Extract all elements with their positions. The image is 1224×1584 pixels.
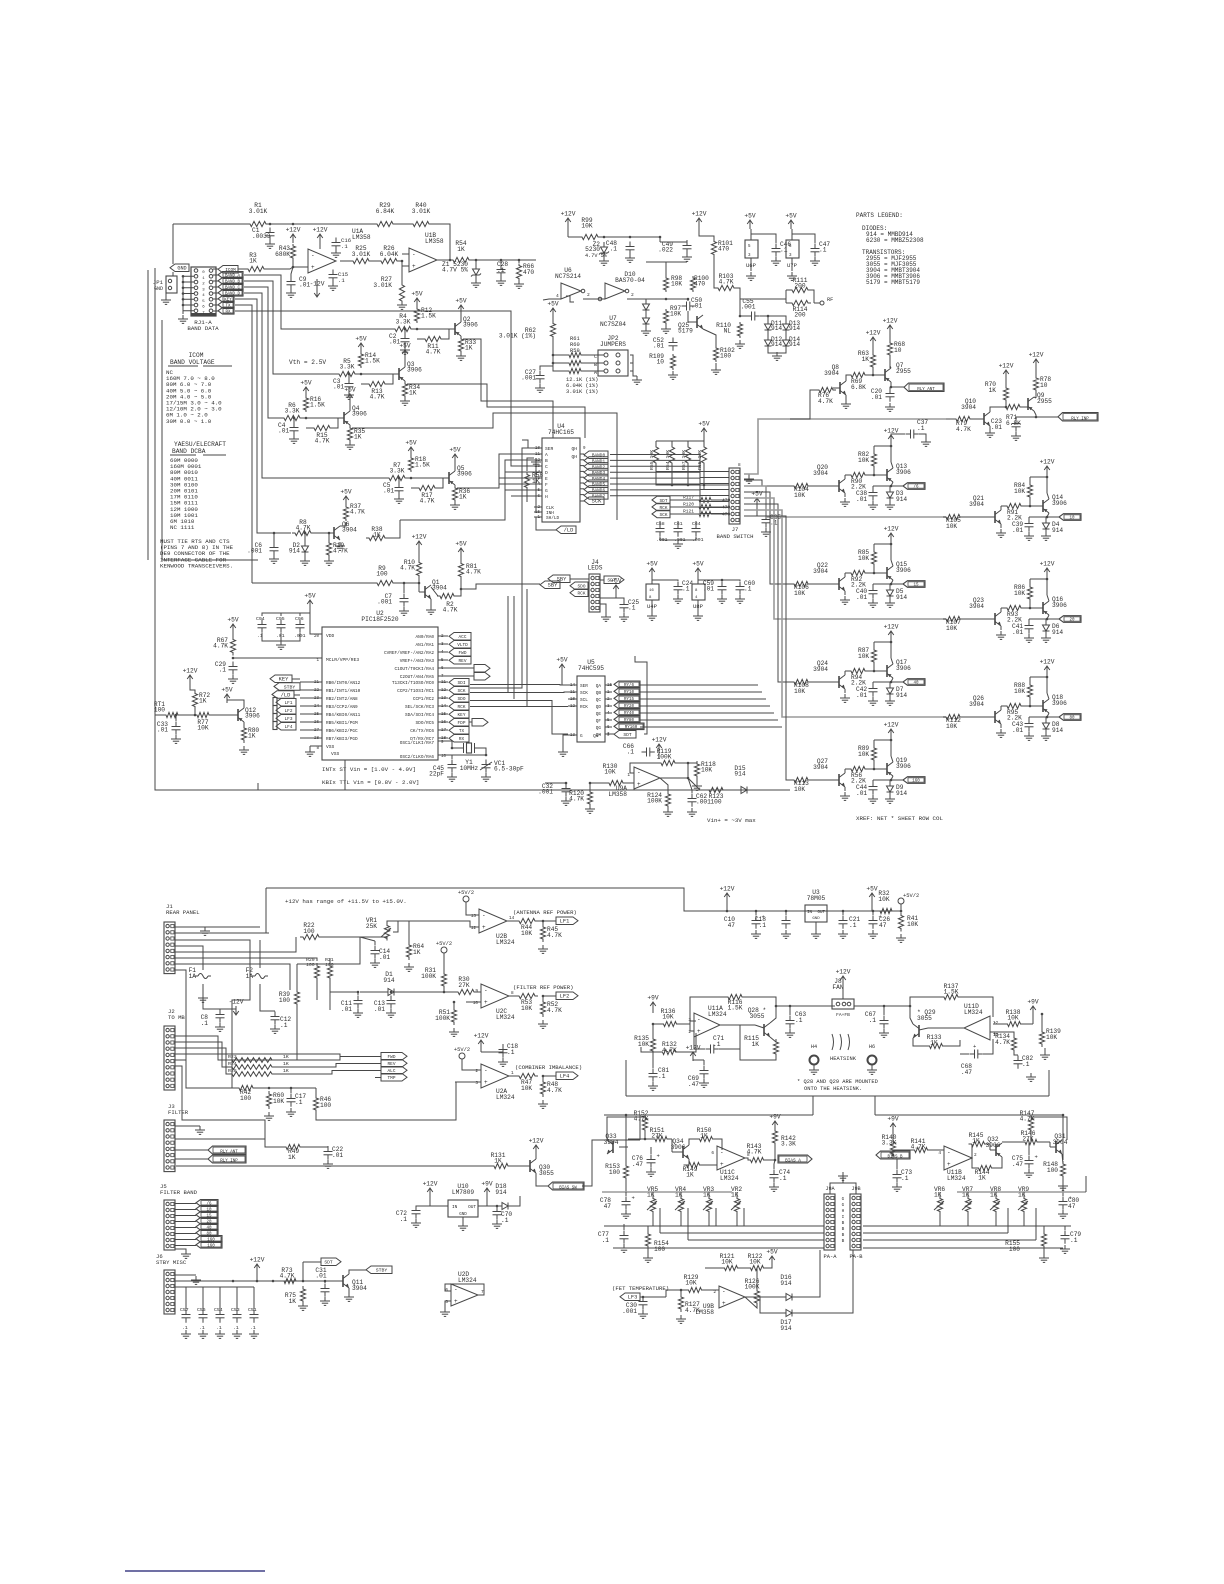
svg-text:LM324: LM324 — [708, 1011, 727, 1018]
wire — [175, 1042, 232, 1067]
svg-text:C57: C57 — [180, 1307, 189, 1313]
svg-text:100: 100 — [325, 962, 334, 968]
svg-text:+: + — [1035, 1154, 1038, 1161]
svg-text:3906: 3906 — [986, 1142, 1001, 1149]
wire band bus to J7 — [610, 455, 729, 514]
capacitor C52 — [653, 337, 678, 351]
svg-text:E: E — [545, 476, 548, 482]
ground — [298, 1302, 308, 1310]
wire — [173, 223, 247, 225]
svg-text:5: 5 — [202, 300, 205, 304]
resistor R110 — [716, 315, 742, 338]
capacitor C46 — [751, 234, 791, 257]
+12V power — [474, 1033, 489, 1053]
resistor R147 — [1020, 1110, 1067, 1142]
resistor R140 — [882, 1132, 897, 1157]
svg-text:LM324: LM324 — [496, 1014, 515, 1021]
+5V power — [340, 489, 351, 506]
svg-text:LM324: LM324 — [496, 939, 515, 946]
wire — [875, 1096, 1064, 1160]
svg-text:3904: 3904 — [342, 527, 357, 534]
resistor R28 — [228, 1068, 289, 1076]
svg-text:+5V: +5V — [744, 213, 755, 220]
resistor R25 — [350, 245, 372, 264]
svg-text:.1: .1 — [602, 1237, 610, 1244]
svg-text:INTx ST Vin = [1.0V - 4.0V]: INTx ST Vin = [1.0V - 4.0V] — [322, 766, 416, 773]
tag STBY — [274, 683, 300, 691]
resistor R55 R54 R57 R65 — [649, 441, 707, 470]
transistor Q24 — [813, 660, 845, 693]
svg-text:+12V: +12V — [836, 969, 851, 976]
+9V power — [887, 1116, 898, 1133]
capacitor C30 — [622, 1296, 647, 1315]
ground — [885, 599, 895, 607]
capacitor C43 — [1012, 717, 1034, 734]
svg-text:4.7K: 4.7K — [956, 426, 971, 433]
svg-text:3906: 3906 — [245, 713, 260, 720]
svg-text:10K: 10K — [946, 723, 957, 730]
svg-text:/LD: /LD — [281, 692, 291, 698]
svg-text:914: 914 — [383, 977, 394, 984]
text r-values — [566, 377, 598, 395]
wire — [940, 1211, 1024, 1226]
svg-text:3.01K: 3.01K — [373, 282, 392, 289]
+5V power — [405, 440, 416, 457]
wire — [1029, 516, 1059, 519]
wire bus — [235, 299, 291, 533]
capacitor C81 — [649, 1054, 670, 1082]
capacitor C6 — [247, 532, 279, 564]
svg-text:KEY: KEY — [279, 677, 289, 683]
svg-text:+12V: +12V — [313, 227, 328, 234]
ground — [879, 1029, 889, 1037]
transistor Q30 — [530, 1152, 554, 1177]
svg-text:.01: .01 — [341, 1006, 352, 1013]
ground — [1041, 732, 1051, 740]
ground — [538, 1100, 548, 1108]
resistor R70 — [985, 381, 1009, 407]
svg-text:+12V: +12V — [884, 526, 899, 533]
svg-text:1: 1 — [627, 773, 630, 778]
svg-text:R55 10K: R55 10K — [649, 450, 655, 470]
ground — [659, 537, 661, 540]
svg-text:+12V: +12V — [412, 534, 427, 541]
+5V power — [785, 213, 796, 230]
wire — [1016, 416, 1058, 419]
svg-text:1K: 1K — [199, 698, 207, 705]
svg-text:10K: 10K — [858, 751, 869, 758]
svg-text:H6: H6 — [869, 1044, 875, 1050]
svg-text:100: 100 — [720, 353, 731, 360]
svg-text:914: 914 — [789, 325, 800, 332]
svg-text:SDT: SDT — [324, 1260, 333, 1266]
tag SDT — [303, 1258, 341, 1281]
svg-text:914: 914 — [289, 548, 300, 555]
capacitor C25 — [616, 598, 639, 613]
capacitor C64 — [692, 521, 704, 543]
wire — [582, 1140, 640, 1186]
svg-text:3904: 3904 — [813, 568, 828, 575]
connector RJ1-A — [187, 267, 219, 332]
svg-text:+5V: +5V — [692, 561, 703, 568]
resistor R127 — [678, 1289, 700, 1314]
svg-text:RCK: RCK — [580, 705, 588, 710]
svg-text:.1: .1 — [1022, 1061, 1030, 1068]
svg-text:+12V has range of +11.5V to +1: +12V has range of +11.5V to +15.0V. — [285, 898, 407, 905]
ground — [868, 501, 878, 509]
capacitor C37 — [891, 419, 928, 444]
resistor R133 — [913, 1034, 960, 1049]
ground — [1024, 1169, 1034, 1177]
svg-text:+12V: +12V — [286, 227, 301, 234]
text note-kenwood — [160, 538, 234, 569]
+5V power — [344, 387, 355, 407]
svg-text:SCK: SCK — [580, 691, 588, 696]
+12V power — [652, 737, 667, 760]
svg-text:.1: .1 — [795, 1017, 803, 1024]
wire — [258, 760, 752, 790]
svg-text:-: - — [454, 1286, 458, 1293]
ground — [1024, 634, 1034, 642]
wire — [635, 656, 647, 734]
+5V power — [411, 291, 422, 308]
svg-text:+5V: +5V — [556, 657, 567, 664]
wire — [660, 777, 689, 780]
ground — [531, 458, 541, 512]
svg-text:RY15: RY15 — [624, 698, 635, 702]
ground — [751, 930, 761, 938]
+12V power — [692, 211, 707, 228]
svg-text:1K: 1K — [288, 1154, 296, 1161]
resistor R85 — [858, 544, 877, 567]
resistor R41 — [898, 913, 918, 932]
svg-text:914: 914 — [780, 1325, 791, 1332]
svg-text:QH: QH — [571, 454, 577, 460]
connector J1 — [164, 903, 200, 974]
ground — [399, 607, 409, 615]
tag 80 — [1059, 714, 1081, 721]
svg-text:B: B — [545, 458, 548, 464]
capacitor C50 — [682, 297, 703, 311]
svg-text:10: 10 — [1040, 382, 1048, 389]
svg-text:LF1: LF1 — [560, 919, 570, 925]
ground — [840, 694, 850, 702]
crystal Y1 — [438, 741, 486, 772]
svg-text:1.5K: 1.5K — [310, 402, 325, 409]
svg-text:100K: 100K — [647, 798, 662, 805]
svg-text:SDI: SDI — [458, 681, 466, 686]
svg-text:.1: .1 — [341, 243, 348, 250]
resistor R60 — [567, 342, 583, 366]
wire — [470, 448, 528, 688]
capacitor C44 — [856, 780, 878, 797]
svg-text:1K: 1K — [283, 1061, 289, 1067]
resistor R136 — [653, 1008, 696, 1027]
fuse F1 — [189, 967, 211, 980]
wire — [194, 707, 197, 716]
svg-text:LM324: LM324 — [964, 1009, 983, 1016]
+9V power — [769, 1114, 780, 1132]
svg-text:B: B — [842, 1239, 845, 1244]
tag — [652, 510, 697, 518]
+5V power — [698, 421, 709, 442]
resistor R102 — [703, 329, 735, 362]
svg-text:FDP: FDP — [458, 721, 466, 726]
resistor R62 — [499, 317, 556, 340]
wire — [400, 460, 534, 520]
wire — [660, 539, 696, 541]
wire — [292, 258, 294, 267]
ground — [286, 1108, 296, 1116]
svg-text:+: + — [720, 1161, 724, 1168]
resistor R81 — [458, 557, 481, 580]
svg-text:ONTO THE HEATSINK.: ONTO THE HEATSINK. — [804, 1086, 862, 1092]
svg-text:40: 40 — [913, 682, 919, 686]
resistor R21 — [325, 957, 334, 981]
wire — [202, 968, 204, 970]
ground — [492, 1220, 502, 1228]
svg-text:-: - — [697, 1016, 701, 1023]
power +5V/2 — [458, 890, 474, 907]
resistor R144 — [972, 1157, 1002, 1182]
capacitor C60 — [736, 580, 756, 595]
ground — [996, 529, 1006, 537]
ground — [885, 403, 895, 411]
svg-text:LF3: LF3 — [285, 717, 293, 722]
ground — [840, 596, 850, 604]
ground — [648, 1082, 658, 1090]
wire — [470, 701, 568, 735]
wire — [1030, 676, 1048, 706]
ic U2 right pins — [384, 635, 448, 760]
svg-text:OSC2/CLKO/RA6: OSC2/CLKO/RA6 — [400, 755, 435, 760]
svg-text:RB4/KBI0/AN11: RB4/KBI0/AN11 — [326, 713, 361, 718]
text 12v-range — [285, 898, 407, 905]
resistor R124 — [647, 778, 670, 809]
tag — [652, 496, 697, 504]
svg-text:4.7V 5%: 4.7V 5% — [442, 267, 468, 274]
ground — [682, 253, 692, 261]
svg-text:4.7K: 4.7K — [747, 1149, 762, 1156]
wire — [162, 320, 258, 560]
resistor R68 — [887, 340, 905, 368]
svg-text:10K: 10K — [273, 1098, 284, 1105]
resistor R154 — [645, 1226, 669, 1253]
svg-text:-: - — [311, 252, 315, 259]
svg-text:10K: 10K — [701, 767, 712, 774]
svg-text:0: 0 — [202, 271, 205, 275]
+9V power — [647, 995, 658, 1014]
capacitor C67 — [865, 1005, 889, 1029]
tag RLY_ANT — [175, 1146, 246, 1154]
resistor R98 — [646, 262, 687, 292]
+9V power — [1027, 999, 1038, 1025]
svg-text:.1: .1 — [849, 922, 857, 929]
svg-text:R54 10K: R54 10K — [665, 450, 671, 470]
svg-text:+12V: +12V — [1029, 352, 1044, 359]
resistor R139 — [1039, 1013, 1061, 1047]
resistor R153 — [605, 1152, 628, 1181]
connector J4 — [588, 559, 603, 612]
variable capacitor VC1 — [480, 754, 524, 773]
wire — [874, 445, 892, 475]
svg-text:470: 470 — [694, 281, 705, 288]
resistor R155 — [1005, 1226, 1046, 1253]
svg-text:10K: 10K — [521, 1005, 532, 1012]
mount H4 — [809, 1044, 819, 1074]
wire — [797, 1250, 853, 1313]
svg-text:2: 2 — [631, 292, 634, 298]
svg-text:5: 5 — [789, 245, 792, 249]
wire — [752, 789, 790, 791]
svg-text:+12V: +12V — [1040, 659, 1055, 666]
svg-text:.1: .1 — [901, 1175, 909, 1182]
op-amp U11C — [711, 1146, 750, 1182]
svg-text:.01: .01 — [315, 1273, 326, 1280]
wire — [470, 706, 568, 708]
resistor R122 — [748, 1253, 773, 1271]
svg-text:D: D — [545, 470, 548, 476]
svg-text:PA-B: PA-B — [850, 1254, 864, 1260]
svg-text:3906: 3906 — [407, 367, 422, 374]
ground — [498, 1058, 508, 1066]
svg-text:QC: QC — [596, 698, 602, 703]
svg-text:.01: .01 — [856, 594, 867, 601]
+5V power — [744, 491, 763, 517]
resistor RT1 — [154, 701, 181, 718]
svg-text:10K: 10K — [1014, 688, 1025, 695]
tag /LD — [272, 691, 300, 699]
svg-text:QH*: QH* — [593, 734, 601, 739]
svg-text:3904: 3904 — [969, 603, 984, 610]
svg-text:+5V: +5V — [304, 593, 315, 600]
svg-text:3055: 3055 — [750, 1013, 765, 1020]
resistor R109 — [649, 353, 675, 370]
svg-text:2: 2 — [202, 283, 205, 287]
node pic port tags — [449, 679, 469, 743]
wire — [656, 464, 729, 486]
op-amp U11B — [938, 1146, 977, 1182]
svg-text:IN: IN — [452, 1205, 458, 1210]
ground — [892, 1183, 902, 1191]
ground — [228, 675, 238, 683]
svg-text:+12V: +12V — [561, 211, 576, 218]
svg-text:4.7K: 4.7K — [995, 1039, 1010, 1046]
resistor R49 — [175, 1139, 328, 1161]
svg-text:3904: 3904 — [813, 666, 828, 673]
wire — [175, 1280, 343, 1283]
wire — [293, 261, 308, 267]
svg-text:3.01K: 3.01K — [249, 208, 268, 215]
capacitor C8 — [201, 984, 225, 1027]
capacitor C21 — [827, 910, 860, 929]
wire — [660, 1208, 744, 1240]
svg-text:C54: C54 — [214, 1307, 223, 1313]
wire — [235, 311, 534, 466]
ground — [331, 249, 341, 257]
wire — [873, 583, 903, 586]
diode D14 — [783, 335, 801, 351]
svg-text:+5V: +5V — [610, 578, 621, 585]
resistor R3 — [238, 252, 308, 272]
resistor R75 — [285, 1286, 306, 1305]
svg-text:3906: 3906 — [457, 471, 472, 478]
svg-text:3904: 3904 — [961, 404, 976, 411]
+12V power — [1040, 459, 1055, 478]
resistor R120 — [683, 502, 731, 511]
capacitor C47 — [792, 234, 830, 257]
svg-text:-: - — [722, 1288, 726, 1295]
wire — [1030, 578, 1048, 608]
svg-text:2.2K: 2.2K — [851, 582, 866, 589]
svg-text:10: 10 — [1069, 517, 1075, 521]
capacitor C62 — [688, 778, 712, 807]
wire — [526, 589, 528, 706]
resistor R152 — [607, 1110, 649, 1140]
resistor R80 — [241, 722, 259, 743]
resistor R20 — [306, 957, 320, 981]
wire — [874, 543, 892, 573]
svg-text:3906: 3906 — [896, 469, 911, 476]
+5V power — [455, 298, 466, 318]
svg-text:OUT: OUT — [817, 911, 825, 915]
capacitor C10 — [724, 910, 765, 929]
ground — [286, 289, 296, 297]
ground — [663, 808, 673, 816]
connector J9B — [850, 1186, 861, 1250]
diode Z2 — [585, 241, 609, 259]
wire — [626, 1192, 737, 1199]
svg-text:3.01K (1%): 3.01K (1%) — [566, 389, 598, 395]
wire — [513, 596, 515, 699]
svg-text:.01: .01 — [1012, 727, 1023, 734]
svg-text:GND: GND — [177, 266, 186, 272]
svg-text:LF2: LF2 — [285, 709, 293, 714]
wire — [414, 328, 443, 331]
text xref — [856, 815, 943, 822]
svg-text:R59: R59 — [570, 348, 580, 354]
svg-text:6: 6 — [711, 1151, 714, 1156]
ground — [535, 384, 545, 392]
ground — [996, 631, 1006, 639]
ground — [561, 797, 571, 805]
resistor R143 — [745, 1143, 776, 1163]
wire — [408, 477, 437, 480]
svg-text:FAN: FAN — [832, 984, 843, 991]
+12V power — [1040, 561, 1055, 580]
svg-text:2.2K: 2.2K — [851, 680, 866, 687]
ground — [538, 945, 548, 953]
transistor Q22 — [813, 562, 845, 595]
-12V power — [310, 279, 325, 297]
ground — [411, 1219, 421, 1227]
svg-text:1.5K: 1.5K — [728, 1005, 743, 1012]
capacitor C68 — [960, 1039, 993, 1076]
capacitor C70 — [493, 1205, 513, 1224]
svg-text:YAESU/ELECRAFT: YAESU/ELECRAFT — [174, 441, 226, 448]
ground — [496, 277, 506, 285]
+5V power — [556, 657, 568, 686]
ground — [771, 257, 781, 265]
svg-text:A: A — [545, 452, 548, 458]
svg-text:+: + — [657, 1153, 660, 1160]
svg-text:.01: .01 — [379, 954, 390, 961]
svg-text:10K: 10K — [638, 1041, 649, 1048]
svg-text:3904: 3904 — [813, 764, 828, 771]
tag ACC — [449, 633, 471, 641]
svg-text:+5V: +5V — [227, 617, 238, 624]
tag 40 — [903, 679, 925, 686]
